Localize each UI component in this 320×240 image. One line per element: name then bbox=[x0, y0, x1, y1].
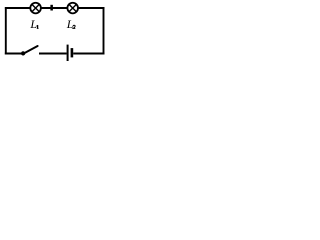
svg-text:L: L bbox=[66, 17, 74, 31]
lamp L1 bbox=[30, 3, 41, 14]
lamp L2 bbox=[67, 3, 78, 14]
wire lamp L2 to top-right corner bbox=[78, 7, 105, 9]
switch pivot dot bbox=[21, 51, 25, 55]
label L1 bbox=[29, 17, 38, 31]
wire between lamps bbox=[41, 7, 68, 9]
wire switch to battery bbox=[39, 53, 67, 55]
wire battery to bottom-right corner bbox=[73, 53, 104, 55]
wire left vertical bbox=[5, 7, 7, 54]
label L2 bbox=[66, 17, 76, 31]
switch lever bbox=[23, 46, 37, 54]
junction tick bbox=[50, 5, 53, 11]
battery long plate bbox=[67, 45, 69, 61]
wire right vertical bbox=[103, 7, 105, 54]
battery short plate bbox=[71, 48, 74, 57]
wire top-left horizontal bbox=[5, 7, 31, 9]
svg-text:L: L bbox=[29, 17, 37, 31]
wire bottom-left to switch bbox=[5, 53, 22, 55]
